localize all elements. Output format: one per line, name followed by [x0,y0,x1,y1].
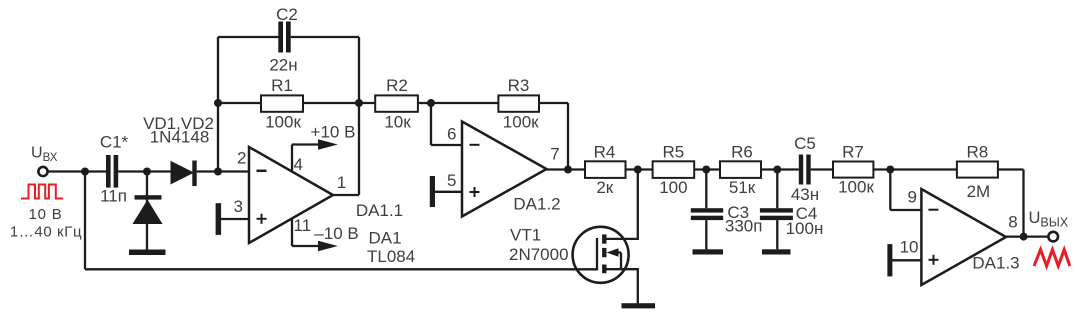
VT1 drain tick [602,234,606,243]
wire C1 to node B [118,170,147,172]
svg-text:100: 100 [659,178,687,197]
wire R8 right [998,168,1024,170]
wire C5 to R7 [811,168,833,170]
wire R7 to R8 [873,168,957,170]
svg-text:10 В: 10 В [28,206,62,223]
ground (C4) [762,249,791,254]
wire DA1.2 output [547,168,586,170]
op-amp DA1.3 [921,189,1006,285]
svg-text:7: 7 [550,145,559,164]
svg-text:43н: 43н [791,185,819,204]
wire R4 to R5 [626,168,653,170]
svg-text:C5: C5 [794,134,816,153]
wire node B to VD1 [147,170,171,172]
wire ground to pin 10 [892,259,922,261]
svg-text:11п: 11п [100,187,127,206]
wire node A to C1 [85,170,107,172]
svg-text:1: 1 [337,173,346,192]
wire node D to R2 [359,102,375,104]
svg-text:4: 4 [294,155,303,174]
square wave symbol (red) [21,185,63,199]
svg-text:DA1: DA1 [369,229,402,248]
svg-text:DA1.3: DA1.3 [972,254,1019,273]
svg-text:2M: 2M [967,182,991,201]
svg-text:R3: R3 [508,76,530,95]
svg-text:R8: R8 [967,143,989,162]
svg-text:330п: 330п [725,217,763,236]
resistor R3 [498,95,539,111]
wire left vertical of C2 loop [217,37,219,172]
op-amp DA1.2 [462,122,547,217]
capacitor C4 [776,170,778,209]
resistor R2 [375,95,418,111]
capacitor C2 [278,22,283,53]
transistor VT1 body circle [573,227,629,283]
wire node E to R3 [431,102,498,104]
svg-text:6: 6 [447,125,456,144]
minus sign DA1.1 [257,170,267,173]
wire R3 right [539,102,568,104]
svg-text:51к: 51к [729,178,756,197]
node output junction [1020,233,1028,241]
node R1 left [214,99,222,107]
capacitor C3 [705,170,707,209]
resistor R5 [653,161,695,178]
plus sign DA1.1 [257,218,267,220]
minus sign DA1.2 [470,144,480,146]
svg-text:R1: R1 [271,76,293,95]
wire R8 down to output node [1022,170,1024,237]
wire node A down [84,172,86,270]
minus sign DA1.3 [929,209,939,211]
svg-text:R2: R2 [386,76,408,95]
svg-text:10: 10 [900,238,919,257]
node E (pin6 junction) [427,99,435,107]
wire DA1.3 output [1006,235,1049,237]
node C4 junction [773,166,781,174]
VT1 source tick [602,265,606,274]
svg-text:1…40 кГц: 1…40 кГц [10,224,82,241]
svg-text:DA1.2: DA1.2 [513,195,560,214]
pin 11 wire down [291,220,293,247]
svg-text:R6: R6 [731,143,753,162]
node drain junction [634,166,642,174]
wire DA1.1 output [333,194,359,196]
node A (input junction) [81,168,89,176]
svg-text:10к: 10к [384,113,411,132]
ground (pin 10) [887,244,892,276]
wire R6 to C5 [761,168,799,170]
wire right vertical of C2 loop [358,37,360,195]
plus sign DA1.3 [929,259,939,261]
svg-text:2N7000: 2N7000 [509,245,569,264]
wire node C to pin2 [218,170,249,172]
+10V arrow [292,143,320,145]
pin 4 wire up [291,145,293,172]
VT1 source lead [607,269,638,303]
ground (VT1 source) [622,303,656,308]
node D (R1 right / opamp1 out) [355,99,363,107]
svg-text:100к: 100к [265,113,301,132]
svg-text:2: 2 [237,149,246,168]
svg-text:DA1.1: DA1.1 [356,201,403,220]
svg-text:100к: 100к [503,113,539,132]
wire bottom run to gate [85,268,597,270]
wire to R1 [218,102,261,104]
wire R3 down to out2 [567,103,569,170]
node pin9 junction [886,166,894,174]
wire pin9 to opamp3 [890,209,921,211]
VT1 gate bar [596,238,598,270]
resistor R4 [585,161,626,178]
wire pin6 to opamp2 [431,144,462,146]
svg-text:3: 3 [234,197,243,216]
wire pin6 down [430,103,432,145]
svg-text:R7: R7 [842,143,864,162]
svg-text:8: 8 [1008,213,1017,232]
wire VD1 to node C [197,170,218,172]
svg-text:9: 9 [908,188,917,207]
plus sign DA1.2 [470,191,480,193]
resistor R7 [833,162,873,178]
svg-text:1N4148: 1N4148 [150,128,210,147]
VT1 middle tick [602,248,606,257]
ground (pin 5) [430,176,435,207]
svg-text:C1*: C1* [100,133,129,152]
wire input to node A [48,170,85,172]
triangle wave symbol (red) [1034,250,1070,267]
svg-text:R5: R5 [663,143,685,162]
input terminal U_vx [38,167,47,176]
VT1 drain lead [607,170,638,239]
svg-text:22н: 22н [269,56,297,75]
svg-text:2к: 2к [596,178,613,197]
wire pin9 down [889,170,891,211]
wire C2 top right [291,36,359,38]
capacitor C1 [106,155,111,188]
wire R2 to node E [418,102,431,104]
ground (C3) [693,249,724,254]
VT1 substrate arrow [611,251,621,253]
diode VD2 (shunt to ground) [146,172,148,251]
diode VD1 (series) [171,161,195,185]
op-amp DA1.1 [249,147,333,243]
node out2 [564,166,572,174]
capacitor C5 (series) [799,155,803,185]
svg-text:TL084: TL084 [367,247,415,266]
wire ground to pin 3 [221,218,249,220]
ground (VD2) [129,250,166,256]
output terminal U_vyh [1048,232,1058,242]
ground (pin 3) [216,203,222,235]
svg-text:11: 11 [294,216,312,235]
svg-text:C2: C2 [276,5,298,24]
resistor R1 [261,95,303,111]
svg-text:100к: 100к [838,178,874,197]
wire R1 to node D [303,102,359,104]
svg-text:+10 В: +10 В [311,123,356,142]
node C3 junction [702,166,710,174]
svg-text:100н: 100н [786,219,824,238]
svg-text:5: 5 [447,171,456,190]
node C (VD1 cathode junction) [214,168,222,176]
node B (after C1) [143,168,151,176]
resistor R6 [720,161,761,178]
resistor R8 [957,162,998,178]
svg-text:R4: R4 [594,143,616,162]
-10V arrow [292,245,320,247]
wire ground to pin 5 [435,191,462,193]
svg-text:VT1: VT1 [510,226,541,245]
wire R5 to R6 [694,168,720,170]
svg-text:–10 В: –10 В [314,224,358,243]
wire C2 top left [218,36,279,38]
